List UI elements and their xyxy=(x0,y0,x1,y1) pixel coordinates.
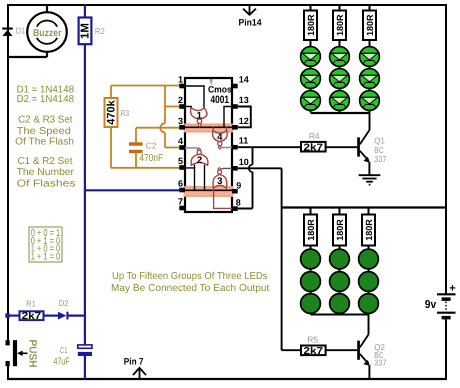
svg-text:13: 13 xyxy=(239,95,249,105)
wire: R4 to Q1 base xyxy=(326,146,358,148)
svg-text:C2: C2 xyxy=(146,141,157,151)
nor gate 4 xyxy=(213,126,228,149)
svg-text:The Speed: The Speed xyxy=(17,126,71,137)
svg-text:180R: 180R xyxy=(335,219,345,241)
wire: pin1 to gate1 input xyxy=(185,86,204,108)
capacitor C1 xyxy=(54,345,93,368)
pin 11 stub xyxy=(232,136,248,150)
wire: R1/D2 branch from left rail xyxy=(8,315,20,317)
resistor 180R bank1 col2 xyxy=(333,11,346,41)
svg-text:Pin 7: Pin 7 xyxy=(124,356,144,366)
svg-text:R2: R2 xyxy=(95,26,105,36)
svg-text:470nF: 470nF xyxy=(139,153,163,164)
svg-text:4001: 4001 xyxy=(211,94,230,106)
wire: pin 10 right then down to bank2 rail and R5 xyxy=(238,168,282,350)
svg-text:180R: 180R xyxy=(364,219,374,241)
wire: gate2 output to pin 4 (gray) xyxy=(185,147,198,149)
NOR truth table box xyxy=(29,227,62,262)
wire: gate4 output to pin 11 (gray) xyxy=(221,147,232,149)
pin 9 stub xyxy=(232,180,241,193)
wire: R1 to D2 xyxy=(44,315,59,317)
resistor 180R bank1 col1 xyxy=(304,11,317,41)
LED D5 (lit) bank1 r1c3 xyxy=(360,47,380,67)
highlight bar row pin6-pin9 xyxy=(184,186,234,197)
svg-text:6: 6 xyxy=(178,179,183,189)
svg-text:9v: 9v xyxy=(425,299,437,311)
pin 6 stub xyxy=(178,179,185,193)
LED D4 (lit) bank1 r1c2 xyxy=(330,47,350,67)
wire: pin6 to pin9 row xyxy=(185,189,232,191)
resistor 180R bank2 col2 xyxy=(333,215,346,246)
nor gate 1 xyxy=(191,108,207,128)
diode D1 xyxy=(2,26,25,36)
svg-text:5: 5 xyxy=(178,156,183,166)
svg-text:8: 8 xyxy=(236,197,241,207)
LED D18 (off) bank2 r3c1 xyxy=(301,294,321,314)
pin 3 stub xyxy=(178,116,185,130)
svg-text:1M: 1M xyxy=(80,23,92,39)
diode D2 xyxy=(58,298,69,320)
svg-text:Of The Flash: Of The Flash xyxy=(15,137,74,148)
LED D19 (off) bank2 r3c2 xyxy=(330,294,350,314)
wire: pin3 to pin12 row xyxy=(185,126,232,128)
wire: pin2 to gate1 input xyxy=(185,107,191,108)
LED D10 (lit) bank1 r3c2 xyxy=(330,91,350,111)
pin 4 stub xyxy=(178,136,185,150)
wire: bank2 column 3 xyxy=(368,208,370,315)
transistor Q1 BC337 xyxy=(357,113,387,175)
LED D9 (lit) bank1 r3c1 xyxy=(301,91,321,111)
push switch SW1 xyxy=(6,340,39,368)
wire: blue branch to pin 6 xyxy=(85,189,180,191)
wire: blue vertical below C1 to bottom rail xyxy=(84,356,86,379)
resistor R4 xyxy=(301,131,326,153)
svg-text:D2 = 1N4148: D2 = 1N4148 xyxy=(17,94,75,105)
wire: pin11 junction down with hop over pin10 wire, to pin 8 xyxy=(238,147,253,208)
battery 9v xyxy=(425,283,456,320)
wire: bank1 bottom rail to Q1 collector xyxy=(311,112,370,114)
wire: pin 11 to R4 xyxy=(238,146,301,148)
wire: bank2 column 2 xyxy=(339,208,341,315)
svg-text:May Be Connected To Each Out: May Be Connected To Each Output xyxy=(111,283,270,294)
wire: bank1 column 2 xyxy=(339,5,341,113)
wire: bank2 column 1 xyxy=(310,208,312,315)
pin 8 stub xyxy=(232,197,241,211)
LED D13 (off) bank2 r1c2 xyxy=(330,249,350,269)
svg-text:12: 12 xyxy=(239,116,249,126)
pin 7 stub xyxy=(178,197,185,211)
resistor R3 xyxy=(105,98,130,127)
svg-text:2: 2 xyxy=(197,155,202,166)
svg-text:R5: R5 xyxy=(307,335,318,345)
transistor Q2 BC337 xyxy=(357,315,387,380)
svg-text:C1 & R2 Set: C1 & R2 Set xyxy=(18,156,73,167)
svg-text:2k7: 2k7 xyxy=(304,142,324,153)
pin 5 stub xyxy=(178,156,185,170)
pin 14 stub xyxy=(232,75,249,89)
svg-text:337: 337 xyxy=(374,357,386,367)
svg-text:14: 14 xyxy=(239,75,249,85)
LED D7 (lit) bank1 r2c2 xyxy=(330,69,350,89)
wire: D2 to blue vertical xyxy=(69,315,85,317)
LED D14 (off) bank2 r1c3 xyxy=(359,249,379,269)
LED D20 (off) bank2 r3c3 xyxy=(359,294,379,314)
svg-text:C1: C1 xyxy=(60,345,68,355)
svg-text:1 + 1 = 0: 1 + 1 = 0 xyxy=(31,251,61,262)
svg-text:Buzzer: Buzzer xyxy=(33,28,62,39)
capacitor C2 xyxy=(129,141,163,164)
note text: C1 R2 number xyxy=(17,156,76,190)
wire: gate2 input skirt and pin5 tap xyxy=(185,165,205,191)
ground symbol xyxy=(359,175,381,184)
svg-text:R1: R1 xyxy=(26,298,36,308)
wire: orange vertical with hop over C2 wire, branch pins 2 and 4 xyxy=(160,86,179,148)
wire: blue R2 vertical from top rail xyxy=(84,5,86,18)
svg-text:10: 10 xyxy=(239,157,249,167)
note text: up to fifteen groups xyxy=(111,271,270,294)
wire: bank1 column 3 xyxy=(369,5,371,113)
wire: orange C2 top to pin 3 xyxy=(136,128,180,143)
svg-text:D2: D2 xyxy=(59,298,69,308)
buzzer xyxy=(27,12,67,52)
svg-text:11: 11 xyxy=(239,136,249,146)
svg-text:7: 7 xyxy=(178,197,183,207)
svg-text:Of Flashes: Of Flashes xyxy=(17,178,76,189)
wire: buzzer bottom stem and run to left rail xyxy=(7,52,47,57)
wire: bank2 bottom rail xyxy=(311,314,369,316)
svg-text:C2 & R3 Set: C2 & R3 Set xyxy=(18,114,73,125)
wire: bank1 column 1 xyxy=(310,5,312,113)
highlight bar row pin3-pin12 xyxy=(184,124,234,133)
svg-text:Up To Fifteen Groups Of Three: Up To Fifteen Groups Of Three LEDs xyxy=(112,271,267,282)
LED D8 (lit) bank1 r2c3 xyxy=(360,69,380,89)
note text: C2 R3 speed xyxy=(15,114,74,147)
wire: bank2 top rail from pin10 line to right rail xyxy=(282,206,446,208)
svg-text:PUSH: PUSH xyxy=(27,340,39,368)
Pin14 annotation arrow xyxy=(239,5,263,28)
wire: pin13 to pin12 external bracket xyxy=(238,107,251,128)
svg-text:+: + xyxy=(449,283,455,295)
resistor 180R bank2 col1 xyxy=(304,215,317,246)
svg-text:R3: R3 xyxy=(121,108,130,118)
wire: orange R3 top lead xyxy=(110,86,112,99)
pin 2 stub xyxy=(178,95,185,109)
wire: blue vertical R2 down to C1 xyxy=(84,44,86,345)
svg-text:4: 4 xyxy=(178,136,183,146)
svg-text:1: 1 xyxy=(178,75,183,85)
LED D11 (lit) bank1 r3c3 xyxy=(360,91,380,111)
svg-text:2k7: 2k7 xyxy=(304,346,324,357)
LED D12 (off) bank2 r1c1 xyxy=(301,249,321,269)
svg-text:4: 4 xyxy=(217,132,223,143)
svg-text:Cmos: Cmos xyxy=(208,85,232,95)
wire: buzzer top stem xyxy=(46,5,48,13)
wire: bottom 0V rail xyxy=(7,378,447,380)
pin 1 stub xyxy=(178,75,185,89)
nor gate 3 xyxy=(213,168,227,189)
svg-text:470k: 470k xyxy=(105,99,117,124)
wire: R5 feed corner xyxy=(282,349,301,351)
svg-text:Pin14: Pin14 xyxy=(239,18,263,28)
svg-text:337: 337 xyxy=(374,154,386,164)
svg-text:180R: 180R xyxy=(306,219,316,241)
nor gate 2 xyxy=(191,148,208,166)
wire: top +9V rail xyxy=(7,4,447,6)
svg-text:47uF: 47uF xyxy=(54,356,70,367)
svg-text:3: 3 xyxy=(217,176,222,187)
junction dot on left rail xyxy=(5,313,9,317)
resistor R1 xyxy=(20,298,44,322)
LED D16 (off) bank2 r2c2 xyxy=(330,272,350,292)
pin 13 stub xyxy=(232,95,249,109)
pin 10 stub xyxy=(232,157,249,171)
svg-text:3: 3 xyxy=(178,116,183,126)
wire: R5 to Q2 base xyxy=(326,349,358,351)
svg-text:180R: 180R xyxy=(365,14,375,36)
svg-text:R4: R4 xyxy=(309,131,320,141)
svg-text:D1: D1 xyxy=(16,26,26,36)
wire: gate3 output to pin 10 xyxy=(221,167,232,170)
wire: left rail (below push switch) xyxy=(7,366,9,380)
wire: right rail above battery xyxy=(445,4,447,294)
wire: gate3 left input down to pin 8 xyxy=(214,190,232,208)
wire: orange net to pin 1 xyxy=(111,85,180,87)
svg-text:2k7: 2k7 xyxy=(22,311,42,322)
svg-text:1: 1 xyxy=(197,111,203,122)
note text: D1 D2 values xyxy=(17,84,75,105)
LED D17 (off) bank2 r2c3 xyxy=(359,272,379,292)
resistor R5 xyxy=(301,335,326,357)
resistor 180R bank2 col3 xyxy=(362,215,375,246)
pin 12 stub xyxy=(232,116,249,130)
svg-text:9: 9 xyxy=(236,180,241,190)
wire: gate3 input skirt xyxy=(214,188,227,191)
svg-text:180R: 180R xyxy=(306,14,316,36)
resistor 180R bank1 col3 xyxy=(363,11,376,41)
resistor R2 xyxy=(79,18,105,45)
wire: orange C2 bottom / R3 bottom to pin 5 xyxy=(111,153,180,168)
svg-text:180R: 180R xyxy=(335,14,345,36)
LED D3 (lit) bank1 r1c1 xyxy=(301,47,321,67)
wire: left rail (upper, to push switch) xyxy=(7,4,9,340)
wire: pin13 to gate4 input xyxy=(224,107,232,128)
LED D15 (off) bank2 r2c1 xyxy=(301,272,321,292)
Pin 7 annotation arrow xyxy=(124,356,146,379)
wire: right rail below battery xyxy=(445,320,447,381)
LED D6 (lit) bank1 r2c1 xyxy=(301,69,321,89)
svg-text:2: 2 xyxy=(178,95,183,105)
IC U1 Cmos 4001 body xyxy=(185,78,232,212)
wire: orange R3 bottom lead xyxy=(110,127,112,168)
svg-text:The Number: The Number xyxy=(17,167,75,178)
